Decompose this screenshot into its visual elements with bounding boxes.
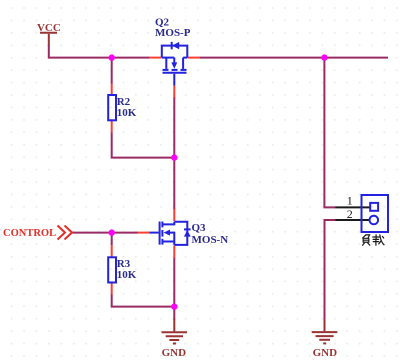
resistor R2 labels	[117, 96, 137, 119]
svg-text:GND: GND	[162, 347, 187, 359]
svg-text:CONTROL: CONTROL	[3, 228, 56, 239]
connector label 负载 (load), drawn strokes	[363, 235, 384, 245]
transistor Q2 bulk arrow	[171, 62, 177, 68]
svg-text:GND: GND	[313, 347, 338, 359]
wire Q2 drain to right rail end	[200, 57, 389, 59]
svg-text:MOS-P: MOS-P	[155, 27, 191, 39]
transistor Q2 labels	[155, 17, 191, 40]
transistor Q2 pins (source left, drain right, gate bottom)	[149, 58, 200, 98]
transistor Q3 body-diode arrow	[184, 230, 191, 236]
wire connector pin 2 to ground	[325, 220, 337, 320]
svg-text:10K: 10K	[117, 107, 137, 119]
wire junction to R2 top	[111, 58, 113, 84]
svg-text:10K: 10K	[117, 269, 137, 281]
svg-text:1: 1	[347, 194, 353, 208]
svg-text:VCC: VCC	[37, 22, 61, 34]
transistor Q2 body-diode arrow	[172, 42, 179, 49]
junction node CONTROL/R3	[109, 229, 115, 235]
junction node top rail / connector	[321, 54, 327, 60]
wire Q3 source to ground	[173, 258, 175, 320]
resistor R2 body	[108, 95, 116, 120]
wire R3 bottom to Q3 source net	[112, 295, 175, 307]
wire CONTROL to Q3 gate	[72, 232, 138, 234]
resistor R3 body	[108, 257, 116, 282]
svg-text:MOS-N: MOS-N	[192, 234, 229, 246]
transistor Q3 bulk arrow	[164, 230, 170, 236]
wire R2 bottom to Q2 gate net	[112, 132, 175, 157]
transistor Q3 labels	[192, 222, 229, 246]
transistor Q3 pins (gate left, drain top, source bottom)	[138, 209, 175, 258]
wire Q2 gate to Q3 drain	[173, 97, 175, 210]
junction node R3/Q3 source	[171, 303, 177, 309]
resistor R3 pins	[111, 245, 113, 294]
transistor Q3 body MOS-N	[149, 222, 190, 245]
wire VCC to Q2 source (top rail left)	[49, 45, 150, 58]
wire top rail to connector pin 1	[324, 58, 336, 208]
junction node R2/Q2 gate	[171, 154, 177, 160]
connector pin lines	[336, 207, 371, 220]
resistor R3 labels	[117, 258, 137, 281]
svg-text:Q3: Q3	[192, 222, 207, 234]
wire junction to R3 top	[111, 233, 113, 246]
resistor R2 pins	[111, 84, 113, 133]
power flag VCC	[40, 33, 57, 46]
svg-text:2: 2	[347, 207, 353, 221]
ground symbol right	[312, 319, 338, 343]
connector J1 body	[362, 195, 389, 232]
input port chevron	[58, 226, 73, 240]
transistor Q2 body MOS-P	[162, 42, 188, 86]
ground symbol under Q3	[162, 319, 188, 344]
junction node VCC/R2	[109, 54, 115, 60]
